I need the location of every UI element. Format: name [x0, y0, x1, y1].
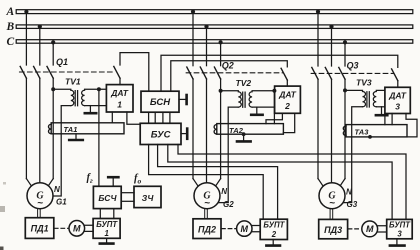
wire: bus A down to Q3 pole1 — [317, 12, 319, 66]
crystal terminal on BSCh top — [112, 178, 114, 186]
svg-text:~: ~ — [37, 198, 43, 209]
wire: bus C down to Q3 pole3 — [344, 41, 346, 66]
wire: bus A down to Q2 pole1 — [192, 12, 194, 66]
svg-text:ЗЧ: ЗЧ — [142, 193, 155, 203]
svg-text:2: 2 — [271, 230, 277, 239]
svg-text:М: М — [241, 224, 249, 234]
wire: TV3 primary bottom to G3 neutral N — [343, 107, 362, 203]
svg-text:3: 3 — [397, 229, 402, 238]
wire: Q2 pole1 down to G2 — [192, 79, 194, 179]
svg-text:A: A — [6, 6, 15, 18]
block DAT1 box — [106, 85, 133, 112]
shaft G3-PD3 (double line) — [330, 209, 333, 220]
svg-text:G2: G2 — [223, 200, 234, 209]
breaker Q3 pole1 blade — [312, 67, 318, 79]
svg-text:G1: G1 — [56, 198, 67, 207]
wire: BSCh-BUPT1 link 2 — [113, 209, 115, 219]
block BUS box — [140, 123, 181, 144]
svg-text:Q1: Q1 — [56, 57, 68, 67]
wire: BUS output 1 to BUPT3 — [178, 145, 406, 220]
block ZCh box — [134, 186, 161, 207]
svg-text:ПД2: ПД2 — [198, 224, 216, 234]
svg-text:1: 1 — [105, 229, 109, 238]
generator G2 — [194, 183, 220, 209]
wire: G2 stator funnel right — [214, 179, 220, 188]
wire: bus A down to Q1 pole1 — [25, 12, 27, 65]
ground at TV1 secondary — [89, 106, 91, 112]
current transformer TA1 box — [51, 123, 124, 134]
wire: Q3 pole2 down to G3 — [331, 79, 333, 183]
wire: BSN-BUS link 1 — [148, 112, 150, 123]
dashed link PD2 to M2 — [222, 228, 237, 230]
ground at BUPT3 — [396, 239, 398, 245]
breaker Q2 pole2 blade — [200, 67, 206, 79]
svg-text:C: C — [7, 36, 15, 48]
breaker Q2 mechanical link (dashed) — [186, 72, 283, 74]
svg-text:2: 2 — [284, 101, 290, 111]
wire: Q1 pole1 down to G1 — [25, 78, 27, 178]
node: f-g signal tap — [97, 87, 101, 91]
svg-text:~: ~ — [204, 198, 210, 209]
bus C bar — [16, 40, 413, 44]
svg-text:М: М — [366, 224, 374, 234]
shaft G1-PD1 (double line) — [38, 209, 41, 218]
transformer TV3 core — [367, 92, 369, 107]
servomotor M3 — [362, 221, 378, 237]
wire: BSCh-ZCh link 2 — [121, 200, 134, 202]
wire: DAT3 to TA3 top — [391, 114, 393, 125]
node: tap of Q1 pole3 on bus C — [51, 40, 55, 44]
wire: bus B down to Q1 pole2 — [39, 27, 41, 65]
wire: Q3 pole1 down to G3 — [317, 79, 319, 178]
svg-text:БУС: БУС — [151, 130, 171, 141]
wire: S3 bottom to DAT3 — [397, 81, 399, 88]
node: TV3 primary tap — [343, 88, 347, 92]
wire: G1 stator funnel right — [47, 179, 53, 188]
transformer TV1 secondary winding — [82, 89, 107, 105]
switch S2 (DAT2 connect) blade — [281, 68, 287, 80]
wire: BUS output 2 to BUPT3 — [168, 145, 392, 220]
wire: BSN-BUS link 3 — [162, 112, 164, 123]
svg-text:ДАТ: ДАТ — [110, 88, 128, 98]
wire: DAT1 to BUS block — [127, 112, 140, 124]
svg-text:TV3: TV3 — [356, 78, 372, 88]
block PD2 box — [193, 219, 221, 239]
wire: Q2 pole2 down to G2 — [206, 79, 208, 183]
wire: Q2 pole3 down to G2 — [220, 79, 222, 179]
breaker Q3 pole3 blade — [339, 67, 345, 79]
wire: S2 bottom to DAT2 — [286, 80, 288, 86]
wire: DAT2 to TA2 right side — [283, 113, 294, 132]
bus B bar — [16, 25, 413, 29]
wire: BSN input 3 over to switch S2 of group 2 — [171, 61, 287, 91]
ground at TA1 — [75, 134, 77, 139]
terminal stub right of BUS — [181, 133, 187, 135]
current transformer TA1 winding bumps — [49, 124, 52, 133]
wire: bus B down to Q2 pole2 — [206, 27, 208, 66]
wire: BSN input 2 over to switch S3 of group 3 — [161, 55, 398, 91]
wire: bus C down to Q2 pole3 — [220, 41, 222, 65]
generator G3 — [319, 183, 345, 209]
wire: Q3 pole3 down to G3 — [344, 79, 346, 178]
transformer TV1 primary winding — [53, 89, 74, 105]
wire: S1 top via elbow down to BSN input 1 — [120, 53, 149, 92]
svg-text:ТА2: ТА2 — [229, 126, 244, 135]
breaker Q2 pole1 blade — [187, 67, 193, 79]
block PD3 box — [319, 219, 348, 238]
node: tap of Q3 pole2 on bus B — [329, 25, 333, 29]
svg-text:G3: G3 — [347, 200, 358, 209]
svg-text:ТА1: ТА1 — [64, 125, 78, 134]
svg-text:3: 3 — [395, 102, 400, 112]
block BUPT1 box — [93, 219, 120, 239]
wire: DAT2 to TA2 top — [266, 113, 282, 123]
block BUPT2 box — [260, 219, 287, 239]
servomotor M1 — [69, 221, 85, 237]
svg-text:ДАТ: ДАТ — [278, 90, 296, 100]
node: tap of Q3 pole1 on bus A — [316, 10, 320, 14]
wire: BUS output 3 to BUPT2 — [158, 145, 278, 220]
node: tap of Q2 pole2 on bus B — [204, 25, 208, 29]
wire: TV3 secondary bottom lead to DAT3 — [376, 106, 385, 108]
wire: bus C down to Q1 pole3 — [52, 41, 54, 65]
breaker Q1 pole2 blade — [34, 66, 40, 78]
ground at TA2 — [242, 132, 246, 136]
wire: TV1 secondary bottom lead to DAT1 — [85, 105, 107, 107]
node: tap of Q1 pole2 on bus B — [38, 25, 42, 29]
breaker Q1 pole1 blade — [20, 66, 26, 78]
transformer TV2 secondary winding — [249, 91, 274, 107]
wire: BSCh-ZCh link 1 — [121, 192, 134, 194]
breaker Q3 mechanical link (dashed) — [311, 72, 393, 74]
wire: G3 stator funnel left — [318, 179, 324, 188]
breaker Q1 mechanical link (dashed) — [20, 71, 116, 73]
wire: BSCh-BUPT1 link 1 — [99, 209, 101, 219]
node: tap of Q2 pole3 on bus C — [219, 40, 223, 44]
wire: TV2 signal down to TA2 — [273, 91, 275, 124]
wire: bus B down to Q3 pole2 — [331, 27, 333, 66]
svg-text:N: N — [221, 187, 227, 196]
wire: DAT3 to TA3 right side — [406, 114, 417, 137]
wire: BSN-BUS link 2 — [154, 112, 156, 123]
wire: G1 stator funnel left — [26, 179, 32, 188]
current transformer TA3 box — [346, 125, 407, 137]
node: tap of Q3 pole3 on bus C — [343, 40, 347, 44]
servomotor M2 — [237, 221, 252, 236]
wire: G2 stator funnel left — [193, 179, 199, 188]
terminal stub right of BSN — [179, 98, 186, 100]
link M3 to BUPT3 (double line) — [378, 226, 387, 232]
wire: Q1 pole2 down to G1 — [39, 78, 41, 183]
wire: G3 stator funnel right — [339, 179, 345, 188]
wire: TV1 primary bottom to G1 neutral N — [53, 106, 71, 196]
breaker Q3 pole2 blade — [325, 67, 331, 79]
wire: Q1 pole3 down to G1 — [52, 78, 54, 178]
block BUPT3 box — [387, 219, 413, 238]
breaker Q1 pole3 blade — [47, 66, 53, 78]
current transformer TA3 winding bumps — [343, 126, 346, 135]
svg-text:N: N — [346, 188, 352, 197]
ground at TV2 secondary — [256, 107, 258, 114]
svg-text:TV2: TV2 — [236, 78, 252, 88]
block BSN box — [141, 91, 179, 112]
node on TA3 bottom — [368, 135, 372, 139]
scan artifact marks — [0, 206, 5, 212]
current transformer TA2 box — [217, 124, 284, 135]
ground at TV3 secondary — [381, 107, 383, 114]
svg-text:ПД3: ПД3 — [324, 225, 342, 235]
generator G1 — [27, 183, 53, 209]
node: TV1 primary tap on phase C — [51, 87, 55, 91]
transformer TV3 secondary winding — [373, 90, 385, 106]
node: tap of Q2 pole1 on bus A — [191, 10, 195, 14]
wire: TV3 signal down to TA3 — [384, 114, 386, 125]
svg-text:БСН: БСН — [150, 97, 171, 108]
wire: generator frequency f-g down to BSCh — [98, 89, 100, 186]
current transformer TA2 winding bumps — [214, 125, 217, 134]
dashed link PD3 to M3 — [348, 228, 361, 230]
breaker Q2 pole3 blade — [214, 67, 220, 79]
svg-text:БУПТ: БУПТ — [96, 220, 118, 229]
transformer TV2 core — [243, 92, 245, 107]
block PD1 box — [25, 218, 54, 239]
node: TV2 primary tap — [219, 89, 223, 93]
ground at BUPT1 — [106, 238, 108, 242]
svg-text:Q3: Q3 — [347, 60, 359, 70]
wire: S1 bottom to DAT1 — [119, 78, 121, 84]
ground at BUPT2 — [272, 240, 274, 245]
transformer TV2 primary winding — [221, 91, 242, 107]
block DAT3 box — [385, 87, 410, 113]
svg-text:N: N — [54, 185, 60, 194]
svg-text:Q2: Q2 — [222, 61, 234, 71]
link M2 to BUPT2 (double line) — [252, 226, 260, 232]
svg-text:БУПТ: БУПТ — [389, 221, 411, 230]
svg-text:БСЧ: БСЧ — [98, 193, 117, 203]
svg-text:М: М — [73, 224, 81, 234]
transformer TV3 primary winding — [345, 90, 366, 106]
block BSCh box — [93, 186, 121, 208]
bus A bar — [16, 10, 413, 14]
dashed link PD1 to M1 — [54, 227, 68, 229]
svg-text:TV1: TV1 — [65, 76, 81, 86]
transformer TV1 core — [75, 91, 77, 106]
node: tap of Q1 pole1 on bus A — [24, 10, 28, 14]
svg-text:ТА3: ТА3 — [355, 127, 370, 136]
wire: TV2 primary bottom to G2 neutral N — [218, 107, 238, 203]
wire: BSN-BUS link 4 — [169, 112, 171, 123]
svg-text:B: B — [6, 21, 15, 33]
svg-text:ПД1: ПД1 — [31, 224, 49, 234]
switch S3 (DAT3 connect) blade — [392, 69, 398, 81]
switch S1 (DAT1 connect) blade — [114, 66, 120, 78]
wire: DAT1 to TA1 — [111, 112, 113, 123]
node: TV2 output tap — [272, 89, 276, 93]
svg-text:1: 1 — [117, 100, 122, 110]
svg-text:ДАТ: ДАТ — [388, 90, 406, 100]
block DAT2 box — [275, 86, 301, 113]
wire: TV2 secondary bottom lead to DAT2 — [252, 106, 275, 108]
link M1 to BUPT1 (double line) — [85, 225, 93, 231]
wire: BUS output 4 to BUPT2 — [149, 145, 264, 220]
shaft G2-PD2 (double line) — [205, 209, 208, 219]
svg-text:~: ~ — [329, 198, 335, 209]
svg-text:БУПТ: БУПТ — [263, 221, 285, 230]
